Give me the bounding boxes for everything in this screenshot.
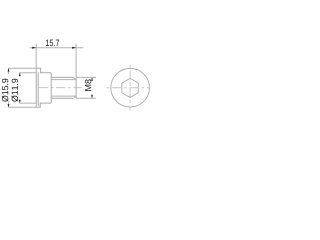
dimension M8: dimension line lower stub — [91, 95, 93, 98]
dimension Ø15.9: bottom extension line — [8, 106, 36, 108]
dimension Ø15.9: bottom arrowhead — [8, 104, 10, 107]
screw side view: head and shank outline — [36, 68, 73, 107]
dimension Ø15.9: top extension line — [8, 67, 36, 69]
screw side view: thread root line bottom — [51, 95, 76, 97]
dimension Ø11.9: dimension line upper stub — [19, 73, 21, 76]
dimension M8: top arrowhead — [91, 77, 93, 80]
screw side view: tip chamfer diagonals — [73, 77, 76, 98]
dimension 15.7: right arrowhead — [72, 47, 76, 49]
dimension Ø11.9: dimension line lower stub — [19, 100, 21, 103]
dimension 15.7: right extension line — [75, 44, 77, 78]
screw side view: thread root line top (M8 minor diameter) — [51, 79, 76, 81]
screw side view: head chamfer edge — [37, 72, 39, 106]
dimension Ø15.9: value label "Ø15.9" (rotated 90) — [2, 79, 9, 102]
dimension 15.7: dimension line — [30, 47, 84, 49]
screw side view: tip end face — [75, 77, 77, 98]
dimension Ø11.9: top arrowhead — [19, 73, 21, 76]
screw front view: head outer circle (Ø15.9) — [111, 68, 150, 107]
dimension 15.7: value label "15.7" — [46, 40, 59, 46]
dimension Ø15.9: top arrowhead — [8, 68, 10, 71]
dimension Ø11.9: bottom extension line — [19, 102, 36, 104]
dimension Ø11.9: top extension line — [19, 72, 36, 74]
dimension M8: bottom extension line — [76, 97, 96, 99]
dimension Ø15.9: dimension line lower stub — [8, 102, 10, 107]
dimension 15.7: left arrowhead — [32, 47, 36, 49]
dimension Ø15.9: dimension line upper stub — [8, 68, 10, 74]
screw front view: hex socket — [122, 78, 139, 97]
dimension M8: dimension line upper stub — [91, 77, 93, 81]
dimension M8: top extension line — [76, 76, 96, 78]
dimension M8: bottom arrowhead — [91, 95, 93, 98]
dimension M8: value label "M8" (rotated 90) — [85, 79, 91, 90]
dimension Ø11.9: value label "Ø11.9" (rotated 90) — [11, 79, 18, 102]
centerline: front view vertical — [129, 65, 131, 111]
centerline: screw axis (side view) — [39, 87, 82, 89]
dimension 15.7: left extension line — [35, 44, 37, 68]
centerline: front view horizontal — [107, 87, 151, 89]
dimension Ø11.9: bottom arrowhead — [19, 100, 21, 103]
